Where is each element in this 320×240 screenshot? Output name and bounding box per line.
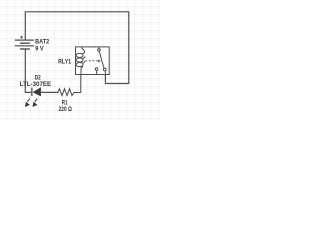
svg-text:220 Ω: 220 Ω — [59, 106, 72, 113]
svg-text:BAT2: BAT2 — [35, 38, 50, 45]
svg-text:RLY1: RLY1 — [58, 59, 72, 66]
svg-text:9 V: 9 V — [35, 46, 44, 53]
svg-text:LTL-307EE: LTL-307EE — [20, 81, 52, 88]
